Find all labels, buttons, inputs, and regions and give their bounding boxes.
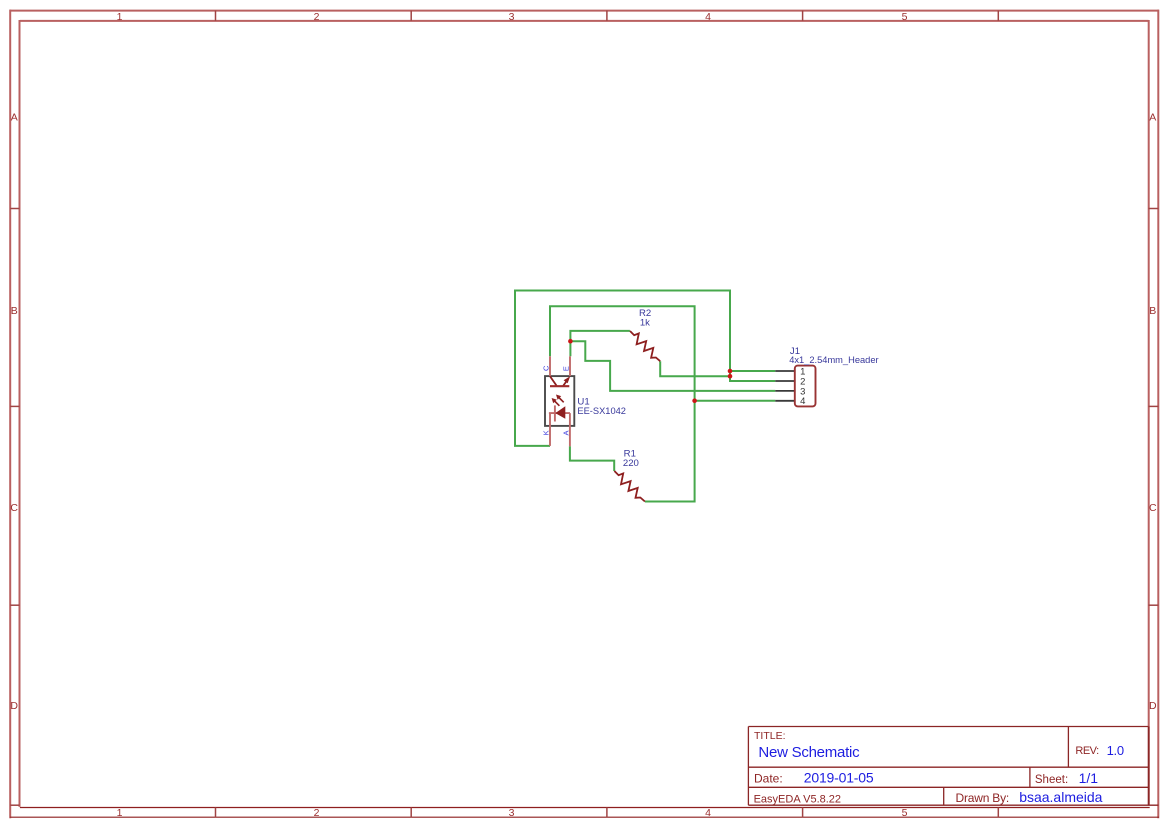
svg-text:2019-01-05: 2019-01-05 (804, 770, 874, 786)
pin lead 1 (775, 370, 795, 372)
svg-text:4: 4 (705, 11, 711, 23)
title block (748, 727, 1158, 806)
pin lead 2 (775, 380, 795, 382)
svg-text:B: B (1149, 305, 1156, 317)
junction R2 bottom (728, 374, 733, 379)
svg-text:1: 1 (117, 807, 123, 819)
wire J1 pin 4 (695, 400, 776, 402)
wire K-pin to top rail to J1 pin1 column (515, 291, 775, 446)
LED cathode bar (554, 405, 556, 421)
resistor R2 (630, 331, 660, 361)
svg-text:1/1: 1/1 (1079, 770, 1099, 786)
svg-text:2: 2 (314, 11, 320, 23)
svg-text:2: 2 (314, 807, 320, 819)
svg-text:3: 3 (509, 11, 515, 23)
wire E-pin junction to R2 top (570, 331, 630, 356)
svg-text:Date:: Date: (754, 772, 783, 786)
junction J1 pin4 (692, 398, 697, 403)
svg-text:C: C (10, 502, 18, 514)
opto-interrupter U1 (542, 356, 575, 446)
svg-text:EasyEDA V5.8.22: EasyEDA V5.8.22 (754, 794, 841, 806)
svg-text:1k: 1k (640, 318, 650, 329)
wire C-pin rail down to R1 bottom (550, 306, 695, 501)
svg-text:C: C (1149, 502, 1157, 514)
transistor collector line (550, 376, 557, 386)
svg-text:D: D (1149, 700, 1157, 712)
LED horizontal lead (549, 412, 570, 414)
svg-text:A: A (1149, 112, 1156, 124)
LED triangle (555, 406, 565, 419)
svg-text:New Schematic: New Schematic (758, 744, 860, 761)
transistor base bar (550, 385, 569, 387)
svg-text:1: 1 (117, 11, 123, 23)
LED light arrow 2 (556, 395, 564, 403)
pin E (569, 356, 571, 376)
header J1 (775, 366, 815, 408)
wire junction to J1 pin 3 (570, 341, 775, 391)
pin lead 4 (775, 400, 795, 402)
pin C (549, 356, 551, 376)
junction on E-pin node (568, 339, 573, 344)
svg-text:K: K (542, 430, 551, 435)
junction J1 pin1 (728, 369, 733, 374)
svg-text:REV:: REV: (1075, 745, 1099, 757)
svg-text:bsaa.almeida: bsaa.almeida (1019, 789, 1102, 805)
pin A (569, 413, 571, 446)
svg-text:220: 220 (623, 458, 639, 469)
svg-text:A: A (562, 430, 571, 435)
svg-text:Drawn By:: Drawn By: (956, 791, 1010, 805)
svg-text:A: A (11, 112, 18, 124)
svg-text:4: 4 (705, 807, 711, 819)
svg-text:5: 5 (902, 807, 908, 819)
svg-text:TITLE:: TITLE: (754, 730, 786, 742)
pin K (549, 413, 551, 446)
svg-text:EE-SX1042: EE-SX1042 (577, 406, 626, 416)
header body (795, 366, 816, 407)
LED light arrow 1 (552, 398, 560, 406)
svg-text:B: B (11, 305, 18, 317)
svg-text:4: 4 (800, 396, 805, 407)
svg-text:4x1_2.54mm_Header: 4x1_2.54mm_Header (789, 355, 878, 365)
svg-text:3: 3 (509, 807, 515, 819)
transistor emitter line with arrow (563, 376, 570, 386)
svg-text:D: D (10, 700, 18, 712)
svg-text:C: C (542, 365, 551, 371)
wire A-pin to R1 top (570, 446, 614, 471)
svg-text:E: E (562, 366, 571, 371)
svg-text:5: 5 (902, 11, 908, 23)
svg-text:Sheet:: Sheet: (1035, 774, 1068, 786)
resistor R1 (614, 471, 645, 502)
pin lead 3 (775, 390, 795, 392)
svg-text:1.0: 1.0 (1107, 743, 1124, 758)
wire J1 pin 1 (730, 370, 775, 372)
wire R2 bottom to pin1 column (660, 361, 730, 376)
